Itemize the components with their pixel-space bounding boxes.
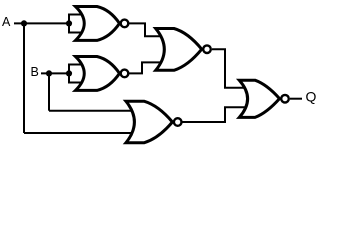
NOR gate U4 output bubble xyxy=(174,118,182,126)
NOR gate U2 output bubble xyxy=(121,70,129,78)
NOR gate U2 body (B inverter) xyxy=(76,57,120,91)
svg-text:A: A xyxy=(2,15,11,29)
NOR gate U3 output bubble xyxy=(203,45,211,53)
NOR gate U1 body (A inverter) xyxy=(76,7,120,41)
wire B run to U4 upper input xyxy=(49,110,134,112)
svg-text:Q: Q xyxy=(306,89,317,105)
NOR gate U5 body (output gate) xyxy=(239,80,279,117)
wire B branch down xyxy=(48,73,50,110)
wire bottom run A to U4 lower input xyxy=(24,132,134,134)
wire U1 tied-input bracket xyxy=(69,15,84,33)
node junction dot at U2 input bracket xyxy=(66,70,72,76)
NOR gate U5 output bubble xyxy=(281,95,289,103)
wire A branch down left rail xyxy=(23,23,25,133)
wire A lead xyxy=(14,22,69,24)
NOR gate U4 body xyxy=(126,101,172,143)
wire U5 output to Q xyxy=(290,98,302,100)
node junction dot on A wire xyxy=(21,20,27,26)
NOR gate U1 output bubble xyxy=(121,20,129,28)
node junction dot on B wire xyxy=(46,70,52,76)
wire U3 output to U5 upper input xyxy=(212,49,246,88)
node junction dot at U1 input bracket xyxy=(66,20,72,26)
wire U2 output to U3 lower input xyxy=(129,62,163,73)
wire U2 tied-input bracket xyxy=(69,65,84,83)
svg-text:B: B xyxy=(31,65,39,79)
wire U4 output to U5 lower input xyxy=(183,107,247,122)
wire B lead xyxy=(41,72,69,74)
NOR gate U3 body xyxy=(156,29,202,71)
wire U1 output to U3 upper input xyxy=(129,23,163,36)
